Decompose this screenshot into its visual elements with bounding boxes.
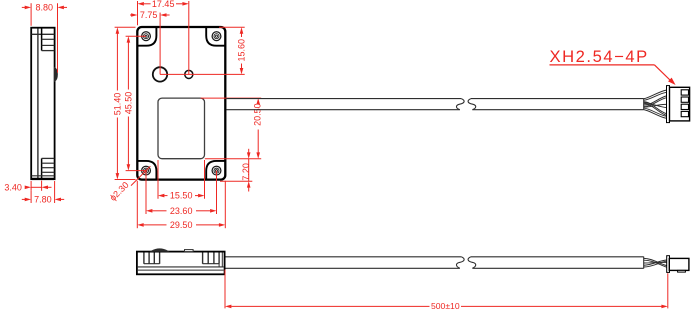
svg-text:29.50: 29.50 xyxy=(170,220,193,230)
svg-text:15.50: 15.50 xyxy=(170,191,193,201)
svg-text:51.40: 51.40 xyxy=(112,93,122,116)
svg-text:15.60: 15.60 xyxy=(236,39,246,62)
svg-text:45.50: 45.50 xyxy=(123,92,133,115)
svg-text:20.50: 20.50 xyxy=(252,103,262,126)
svg-text:3.40: 3.40 xyxy=(4,183,22,193)
svg-text:7.80: 7.80 xyxy=(34,195,52,205)
svg-text:7.75: 7.75 xyxy=(140,10,158,20)
svg-text:23.60: 23.60 xyxy=(170,206,193,216)
svg-text:7.20: 7.20 xyxy=(241,163,251,181)
svg-text:17.45: 17.45 xyxy=(152,0,175,9)
svg-text:8.80: 8.80 xyxy=(36,3,54,13)
svg-text:XH2.54−4P: XH2.54−4P xyxy=(550,47,649,66)
svg-text:500±10: 500±10 xyxy=(431,301,460,311)
